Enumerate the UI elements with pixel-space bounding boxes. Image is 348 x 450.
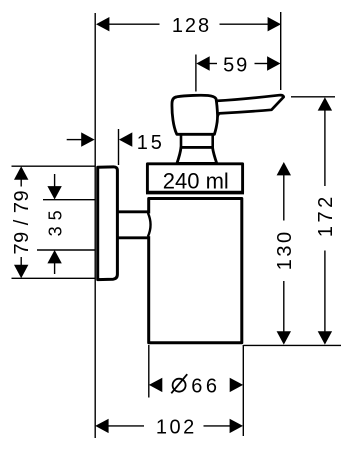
svg-text:79 / 79: 79 / 79 (11, 190, 33, 255)
svg-text:172: 172 (315, 193, 337, 237)
svg-text:66: 66 (191, 376, 220, 398)
svg-text:102: 102 (156, 417, 197, 439)
svg-text:59: 59 (223, 55, 249, 77)
svg-text:35: 35 (46, 204, 66, 236)
svg-text:128: 128 (172, 15, 211, 37)
svg-text:15: 15 (137, 132, 165, 154)
svg-text:130: 130 (274, 229, 296, 270)
svg-text:240 ml: 240 ml (163, 168, 229, 193)
